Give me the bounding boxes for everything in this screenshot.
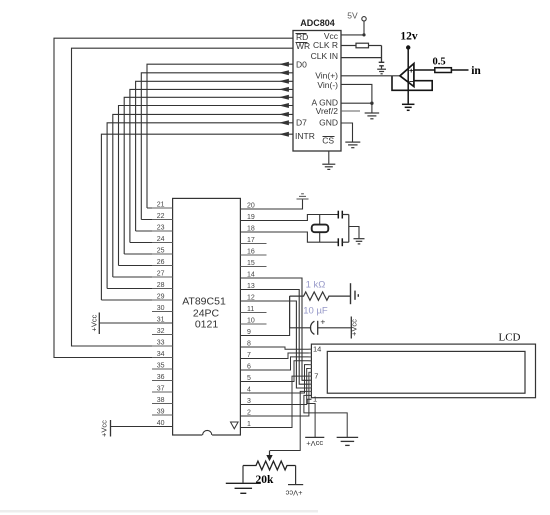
svg-text:+: + — [320, 317, 325, 327]
uC pin 5 stub and number — [240, 375, 266, 382]
ADC pin label Vin(+) — [315, 71, 338, 81]
potentiometer RV1 20k zigzag — [243, 461, 296, 470]
wire uC pin 7 to LCD pin 13 — [240, 353, 311, 358]
svg-text:10: 10 — [247, 318, 255, 325]
inverted ground at pin 20 — [297, 194, 309, 199]
wire uC pin 8 to LCD pin 14 — [240, 347, 311, 349]
svg-text:7: 7 — [247, 352, 251, 359]
uC pin 2 stub and number — [240, 410, 266, 417]
ADC pin label GND — [319, 118, 338, 128]
op-amp comparator feedback loop (drawn early, under triangle) — [392, 76, 432, 91]
wire uC pin 40 to +Vcc — [111, 426, 173, 428]
uC pin 23 stub and number — [152, 225, 173, 232]
uC pin 8 stub and number — [240, 341, 266, 348]
svg-text:1: 1 — [313, 395, 317, 404]
op-amp minus input mark — [409, 77, 414, 86]
svg-text:38: 38 — [157, 397, 165, 404]
svg-text:15: 15 — [247, 260, 255, 267]
wire uC pin 2 to LCD pin 8 — [240, 372, 311, 416]
uC pin 16 stub and number — [240, 249, 266, 256]
wire bus INTR: ADC to uC pin 29 — [101, 132, 293, 300]
ground at A GND — [365, 113, 380, 119]
wire bus D7: ADC to uC pin 28 — [107, 120, 293, 288]
ADC pin label CLK IN — [311, 51, 338, 61]
svg-text:39: 39 — [157, 409, 165, 416]
wire ADC GND down — [341, 123, 353, 142]
svg-text:8: 8 — [247, 341, 251, 348]
uC pin 14 stub and number — [240, 272, 266, 279]
svg-text:26: 26 — [157, 259, 165, 266]
svg-text:12v: 12v — [400, 31, 418, 43]
svg-text:32: 32 — [157, 328, 165, 335]
ground below LCD — [337, 437, 359, 445]
label 20k — [256, 474, 275, 486]
ground below op-amp — [402, 104, 415, 110]
svg-text:25: 25 — [157, 248, 165, 255]
wire uC pin 5 to LCD pin 11 — [240, 361, 311, 382]
svg-text:30: 30 — [157, 305, 165, 312]
svg-text:INTR: INTR — [295, 131, 315, 141]
resistor 0.5 (box style) — [435, 68, 452, 73]
svg-text:1 kΩ: 1 kΩ — [306, 280, 326, 291]
uC pin 18 stub and number — [240, 226, 266, 233]
svg-text:6: 6 — [247, 364, 251, 371]
+Vcc symbol at 10uF cap — [349, 317, 358, 339]
ground at crystal caps — [354, 239, 365, 244]
wire ADC A GND to node — [341, 102, 372, 104]
uC pin 38 stub and number — [152, 397, 173, 404]
svg-text:11: 11 — [247, 306, 254, 313]
uC pin 7 stub and number — [240, 352, 266, 359]
uC pin 35 stub and number — [152, 363, 173, 370]
svg-text:27: 27 — [157, 271, 165, 278]
svg-text:36: 36 — [157, 374, 165, 381]
svg-text:23: 23 — [157, 225, 165, 232]
LCD pin label 14 — [313, 345, 321, 354]
uC pin 34 stub and number — [152, 351, 173, 358]
wire uC pin 4 to LCD pin 10 — [240, 365, 311, 393]
wire uC pin 12 to LCD pin 4 — [240, 301, 311, 388]
label LCD — [499, 332, 521, 344]
op-amp plus input mark — [409, 66, 414, 75]
wire uC pin 13 to LCD pin 5 — [240, 290, 311, 385]
wire 5V to ADC Vcc — [341, 21, 364, 35]
wire 12v rail through op-amp — [407, 49, 409, 104]
wire crystal branch vertical — [319, 215, 321, 243]
uC pin 40 stub and number — [152, 420, 173, 427]
resistor CLK R (box style) — [341, 43, 382, 48]
ADC pin label D0 — [296, 60, 307, 70]
svg-text:+Vcc: +Vcc — [100, 420, 109, 437]
wire bus D6: ADC to uC pin 27 — [113, 112, 293, 277]
label ADC804 — [300, 18, 335, 28]
svg-text:CLK R: CLK R — [313, 40, 338, 50]
svg-text:0121: 0121 — [195, 319, 219, 331]
svg-text:33: 33 — [157, 340, 165, 347]
capacitor at CLK IN — [379, 62, 385, 68]
svg-text:AT89C51: AT89C51 — [182, 296, 226, 308]
wire uC pin 14 to LCD pin 6 — [240, 278, 311, 380]
uC pin 36 stub and number — [152, 374, 173, 381]
wire pot right to +Vcc — [295, 466, 297, 485]
junction dot 5V/Vcc — [362, 33, 365, 36]
svg-text:22: 22 — [157, 213, 165, 220]
svg-text:2: 2 — [247, 410, 251, 417]
svg-text:1: 1 — [247, 421, 251, 428]
wire RD: ADC RD to uC pin 34 — [54, 38, 293, 357]
svg-text:14: 14 — [313, 345, 321, 354]
ADC pin label INTR — [295, 131, 315, 141]
LCD module outer body — [311, 344, 535, 398]
uC pin 20 stub and number — [240, 203, 266, 210]
svg-text:LCD: LCD — [499, 332, 521, 344]
LCD pin ticks — [309, 349, 312, 399]
junction dot A GND — [370, 102, 373, 105]
AT89C51 bottom notch — [202, 430, 212, 436]
uC pin 3 stub and number — [240, 398, 266, 405]
wire uC pin 19 to crystal top rail — [240, 215, 338, 221]
uC pin 6 stub and number — [240, 364, 266, 371]
IC U2 AT89C51 body — [173, 198, 241, 435]
capacitor C1 at pin 19 — [338, 211, 349, 219]
ADC pin label Vcc — [324, 31, 339, 41]
+Vcc symbol below LCD — [305, 437, 324, 447]
uC pin 1 stub and number — [240, 421, 266, 428]
IC ADC804 body — [293, 31, 341, 152]
wire 10uF cap to +Vcc — [318, 327, 351, 329]
label 12v — [400, 31, 418, 43]
wire bus D5: ADC to uC pin 26 — [119, 103, 294, 266]
5V terminal circle — [362, 17, 366, 21]
svg-text:20k: 20k — [256, 474, 275, 486]
rotated ground at 1k resistor — [351, 283, 359, 304]
wire bus D1: ADC to uC pin 22 — [141, 70, 293, 219]
wire reset node to 10uF cap — [290, 327, 312, 329]
wire ADC bottom to ground — [328, 151, 330, 164]
uC pin 12 stub and number — [240, 295, 266, 302]
ADC pin label A GND — [312, 98, 338, 108]
wire uC pin 9 to reset node — [240, 296, 289, 335]
uC pin 28 stub and number — [152, 282, 173, 289]
uC pin 19 stub and number — [240, 214, 266, 221]
wire resistor to in terminal — [451, 69, 468, 71]
ground below CLK IN cap — [377, 69, 386, 74]
svg-text:+Vcc: +Vcc — [306, 439, 323, 448]
wire uC pin 6 to LCD pin 12 — [240, 357, 311, 370]
uC pin 32 stub and number — [152, 328, 173, 335]
ground below ADC CS — [322, 164, 335, 169]
uC pin 29 stub and number — [152, 294, 173, 301]
uC pin 24 stub and number — [152, 236, 173, 243]
ADC pin label CLK R — [313, 40, 338, 50]
label 0121 — [195, 319, 219, 331]
ADC pin label Vin(-) — [317, 80, 338, 90]
AT89C51 pin1 mark triangle — [231, 422, 239, 429]
wire bus D3: ADC to uC pin 24 — [130, 87, 293, 243]
label 0.5 — [432, 57, 445, 68]
ADC pin label D7 — [296, 118, 307, 128]
svg-text:5V: 5V — [347, 11, 358, 21]
svg-text:in: in — [471, 65, 481, 77]
resistor R1 1k zigzag — [290, 292, 350, 300]
uC pin 13 stub and number — [240, 283, 266, 290]
wire WR: ADC WR to uC pin 33 — [72, 48, 294, 346]
uC pin 15 stub and number — [240, 260, 266, 267]
LCD pin label 7 — [314, 372, 318, 381]
+Vcc symbol at uC pin 31 — [90, 313, 100, 335]
uC pin 31 stub and number — [152, 317, 173, 324]
svg-text:GND: GND — [319, 118, 338, 128]
svg-text:+Vcc: +Vcc — [285, 489, 302, 498]
uC pin 21 stub and number — [152, 202, 173, 209]
svg-text:29: 29 — [157, 294, 165, 301]
svg-text:CLK IN: CLK IN — [311, 51, 338, 61]
wire A GND node down — [371, 103, 373, 112]
svg-text:10 µF: 10 µF — [303, 306, 328, 317]
label AT89C51 — [182, 296, 226, 308]
svg-text:4: 4 — [247, 387, 251, 394]
wire uC pin 31 to +Vcc — [99, 322, 172, 324]
svg-text:Vin(-): Vin(-) — [317, 80, 338, 90]
uC pin 26 stub and number — [152, 259, 173, 266]
wire pot wiper to LCD pin 3 — [270, 391, 312, 450]
ADC pin label Vref/2 — [316, 106, 339, 116]
uC pin 37 stub and number — [152, 386, 173, 393]
svg-text:7: 7 — [314, 372, 318, 381]
ground at ADC GND — [345, 142, 360, 148]
uC pin 33 stub and number — [152, 340, 173, 347]
stub ADC Vref/2 — [341, 110, 360, 112]
wire uC pin 1 to LCD pin 7 — [240, 376, 311, 427]
pot wiper arrow — [266, 451, 272, 462]
ADC pin label WR (overline) — [296, 41, 311, 51]
ADC pin label RD (overline) — [296, 32, 309, 42]
LCD pin label 1 — [313, 395, 317, 404]
uC pin 39 stub and number — [152, 409, 173, 416]
uC pin 27 stub and number — [152, 271, 173, 278]
uC pin 11 stub and number — [240, 306, 266, 313]
capacitor C3 10uF polarized — [310, 317, 325, 335]
svg-text:+: + — [409, 66, 414, 75]
label 10 uF — [303, 306, 328, 317]
svg-text:16: 16 — [247, 249, 255, 256]
svg-text:17: 17 — [247, 237, 255, 244]
svg-text:Vref/2: Vref/2 — [316, 106, 339, 116]
uC pin 30 stub and number — [152, 305, 173, 312]
capacitor C2 at pin 18 — [338, 238, 349, 246]
svg-text:37: 37 — [157, 386, 165, 393]
uC pin 9 stub and number — [240, 329, 266, 336]
wire bus D2: ADC to uC pin 23 — [136, 79, 293, 231]
svg-text:D7: D7 — [296, 118, 307, 128]
svg-text:D0: D0 — [296, 60, 307, 70]
wire ADC Vin(-) down to A GND — [341, 84, 372, 103]
wire bus D4: ADC to uC pin 25 — [124, 95, 293, 254]
svg-text:3: 3 — [247, 398, 251, 405]
wire op-amp plus input to resistor — [414, 69, 435, 71]
wire CLK R node down — [381, 46, 383, 63]
svg-text:34: 34 — [157, 351, 165, 358]
svg-text:5: 5 — [247, 375, 251, 382]
wire ADC Vin(+) to op-amp output — [341, 75, 401, 77]
wire uC pin 20 up to ground — [240, 200, 302, 210]
uC pin 25 stub and number — [152, 248, 173, 255]
ground at pot left — [226, 483, 261, 493]
label 5V — [347, 11, 358, 21]
svg-text:+Vcc: +Vcc — [349, 319, 358, 336]
uC pin 4 stub and number — [240, 387, 266, 394]
uC pin 17 stub and number — [240, 237, 266, 244]
+Vcc symbol at uC pin 40 — [100, 420, 111, 437]
wire reset node vertical continues — [289, 296, 291, 328]
LCD inner screen — [327, 351, 525, 393]
crystal X1 body — [312, 225, 329, 233]
wire caps common rail — [348, 215, 350, 243]
svg-text:24: 24 — [157, 236, 165, 243]
label 1 kOhm — [306, 280, 326, 291]
label in — [471, 65, 481, 77]
svg-text:+Vcc: +Vcc — [90, 314, 99, 331]
label 24PC — [193, 308, 220, 320]
svg-text:−: − — [409, 77, 414, 86]
wire LCD pin 1 down to +Vcc — [307, 399, 315, 437]
uC pin 10 stub and number — [240, 318, 266, 325]
svg-text:28: 28 — [157, 282, 165, 289]
svg-text:35: 35 — [157, 363, 165, 370]
+Vcc symbol at pot right — [285, 485, 303, 498]
wire uC pin 18 to crystal bottom rail — [240, 232, 338, 242]
wire LCD pin 2 wrap to ground — [304, 395, 347, 437]
12v supply dot — [406, 45, 410, 49]
wire caps to ground — [349, 227, 359, 239]
op-amp U1 triangle — [400, 64, 414, 87]
wire uC pin 3 to LCD pin 9 — [240, 368, 311, 404]
ADC pin label CS (overline) — [322, 136, 334, 146]
wire pot left to ground — [242, 466, 244, 483]
wire ADC CLK IN to node — [341, 57, 382, 59]
svg-text:0.5: 0.5 — [432, 57, 445, 68]
uC pin 22 stub and number — [152, 213, 173, 220]
svg-text:21: 21 — [157, 202, 165, 209]
wire bus D0: ADC to uC pin 21 — [147, 62, 293, 208]
svg-text:ADC804: ADC804 — [300, 18, 335, 28]
svg-text:Vin(+): Vin(+) — [315, 71, 338, 81]
